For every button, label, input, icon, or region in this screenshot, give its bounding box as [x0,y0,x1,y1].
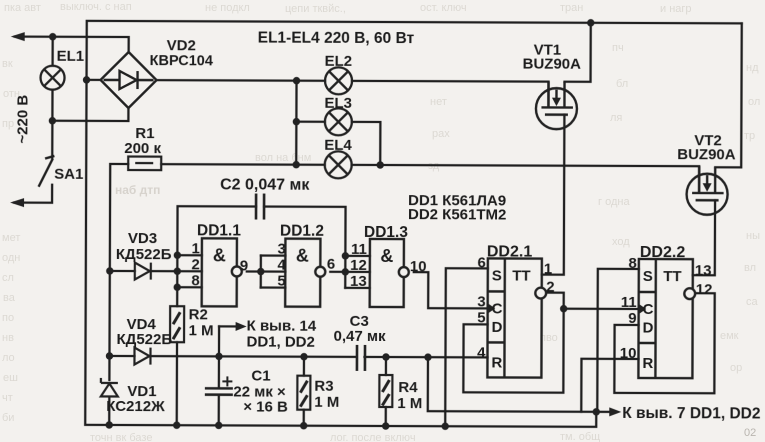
svg-text:R4: R4 [398,379,418,396]
svg-text:11: 11 [351,241,367,258]
svg-text:5: 5 [277,273,285,290]
svg-text:D: D [643,319,654,336]
svg-text:C: C [492,300,503,317]
svg-text:R2: R2 [189,306,208,323]
svg-text:11: 11 [621,294,637,311]
svg-text:R: R [642,355,653,372]
svg-text:9: 9 [628,310,636,327]
svg-text:1 М: 1 М [189,322,214,339]
svg-text:DD2.1: DD2.1 [487,243,533,260]
svg-text:1 М: 1 М [397,395,422,412]
svg-text:1 М: 1 М [314,394,339,411]
svg-text:КД522Б: КД522Б [116,246,172,263]
svg-text:BUZ90A: BUZ90A [677,146,736,163]
svg-text:TT: TT [663,268,681,285]
svg-text:2: 2 [191,256,199,273]
svg-text:SA1: SA1 [54,166,83,183]
svg-text:4: 4 [277,257,286,274]
svg-text:КС212Ж: КС212Ж [106,398,165,415]
svg-text:&: & [213,245,226,265]
svg-text:3: 3 [477,293,485,310]
svg-text:DD1, DD2: DD1, DD2 [247,333,315,350]
svg-text:4: 4 [477,344,486,361]
svg-text:S: S [492,267,502,284]
svg-text:C1: C1 [251,367,270,384]
svg-text:DD1.1: DD1.1 [197,222,241,239]
svg-text:10: 10 [410,258,427,275]
svg-text:6: 6 [327,256,335,273]
svg-text:К выв. 14: К выв. 14 [247,317,317,334]
svg-text:К выв. 7 DD1, DD2: К выв. 7 DD1, DD2 [622,405,760,423]
svg-text:R: R [491,354,502,371]
svg-text:EL1-EL4 220 В, 60 Вт: EL1-EL4 220 В, 60 Вт [258,30,415,48]
svg-text:0,47 мк: 0,47 мк [334,328,387,345]
svg-text:EL1: EL1 [57,48,85,65]
svg-text:D: D [492,319,503,336]
svg-text:5: 5 [477,309,485,326]
svg-text:1: 1 [544,261,552,278]
svg-text:EL3: EL3 [324,95,352,112]
svg-text:2: 2 [546,279,554,296]
svg-text:VD3: VD3 [128,230,157,247]
svg-text:TT: TT [512,267,530,284]
svg-text:S: S [643,268,653,285]
svg-text:12: 12 [696,281,713,298]
svg-text:8: 8 [191,272,199,289]
svg-text:R3: R3 [314,378,333,395]
svg-text:200 к: 200 к [124,140,161,157]
svg-text:VD2: VD2 [167,37,196,54]
svg-text:1: 1 [192,240,200,257]
svg-text:~220 В: ~220 В [14,95,31,144]
svg-text:3: 3 [278,241,286,258]
svg-text:× 16 В: × 16 В [243,398,288,415]
svg-text:EL4: EL4 [324,137,352,154]
svg-text:EL2: EL2 [325,53,353,70]
svg-text:КВРС104: КВРС104 [150,53,213,69]
svg-text:C2 0,047 мк: C2 0,047 мк [220,176,310,193]
svg-text:DD1.2: DD1.2 [280,223,324,240]
svg-text:10: 10 [620,345,637,362]
svg-text:13: 13 [695,262,712,279]
svg-text:12: 12 [350,257,367,274]
svg-text:КД522Б: КД522Б [117,331,173,348]
svg-text:6: 6 [477,254,485,271]
svg-text:8: 8 [628,255,636,272]
svg-text:DD2 К561ТМ2: DD2 К561ТМ2 [408,206,506,223]
svg-text:&: & [296,246,309,266]
svg-text:DD2.2: DD2.2 [640,244,686,261]
svg-text:DD1.3: DD1.3 [364,224,408,241]
svg-text:C: C [643,301,654,318]
svg-text:&: & [380,246,393,266]
svg-text:BUZ90A: BUZ90A [523,56,582,73]
svg-text:9: 9 [240,257,248,274]
svg-text:13: 13 [350,273,367,290]
